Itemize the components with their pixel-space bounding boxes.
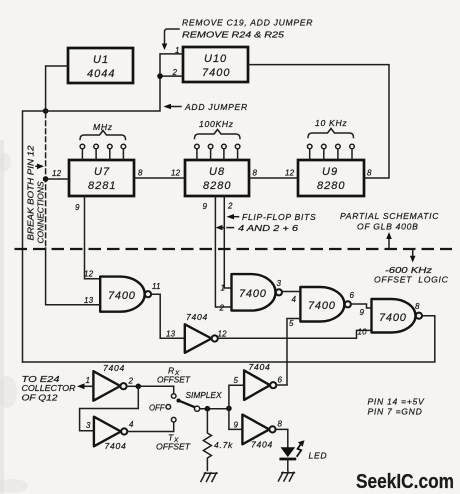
- arrow pointing at break line: [36, 165, 38, 167]
- svg-text:7400: 7400: [239, 288, 267, 300]
- inverter 5->6 7404 (C): [244, 370, 270, 400]
- inverter 9->8 7404 (D): [242, 415, 269, 445]
- node: U7 pin 12 dot on break line: [43, 176, 49, 182]
- svg-text:OFF: OFF: [149, 403, 165, 413]
- wire junction down to inverter D input: [229, 408, 243, 429]
- svg-text:8280: 8280: [317, 180, 345, 192]
- svg-text:8280: 8280: [203, 180, 231, 192]
- LED diode: [281, 447, 296, 457]
- svg-text:7404: 7404: [103, 363, 125, 373]
- svg-text:9: 9: [360, 308, 365, 317]
- svg-text:1: 1: [86, 376, 91, 385]
- wire U10 output to U9 pin 8: [248, 65, 389, 178]
- node: U10 pin1-pin2 tie dot: [157, 73, 163, 79]
- svg-text:4: 4: [129, 420, 134, 429]
- node A junction dot: [43, 108, 49, 114]
- U9 top pin circles and stubs: [307, 144, 312, 149]
- svg-text:FLIP-FLOP BITS: FLIP-FLOP BITS: [242, 212, 316, 222]
- svg-text:2: 2: [128, 377, 134, 386]
- svg-text:4.7k: 4.7k: [214, 440, 233, 450]
- svg-text:COLLECTOR: COLLECTOR: [22, 383, 76, 393]
- svg-text:8281: 8281: [88, 180, 116, 192]
- switch contact OFF: [166, 405, 171, 410]
- svg-text:1: 1: [221, 284, 226, 293]
- svg-text:100KHz: 100KHz: [199, 119, 234, 129]
- nand gate G1 7400 (pins 12,13 -> 11): [100, 277, 145, 312]
- svg-text:OFFSET LOGIC: OFFSET LOGIC: [374, 275, 449, 285]
- svg-text:7400: 7400: [379, 312, 407, 324]
- svg-text:PARTIAL SCHEMATIC: PARTIAL SCHEMATIC: [340, 211, 439, 221]
- svg-text:3: 3: [277, 279, 282, 288]
- svg-text:6: 6: [350, 291, 355, 300]
- svg-text:8: 8: [278, 420, 283, 429]
- svg-text:SeekIC.com: SeekIC.com: [356, 471, 454, 493]
- wire jumper net: node A to U10 pins 1,2: [46, 54, 183, 111]
- svg-text:CONNECTIONS: CONNECTIONS: [36, 181, 46, 243]
- wire G2 output to G4 pin 4: [282, 291, 300, 293]
- svg-text:12: 12: [218, 330, 228, 339]
- wire U8 pin 2 down to gate2 pin 1: [224, 196, 231, 288]
- switch contact Tx: [171, 417, 176, 422]
- svg-text:5: 5: [289, 319, 294, 328]
- nand gate G5 7400 (pins 9,10 -> 8): [372, 299, 416, 333]
- svg-text:U7: U7: [94, 166, 110, 178]
- wire invD output to LED: [276, 429, 288, 447]
- switch contact Rx: [171, 394, 176, 399]
- svg-text:REMOVE C19, ADD JUMPER: REMOVE C19, ADD JUMPER: [182, 18, 313, 28]
- wire G5 output feedback to left rail: [23, 316, 435, 362]
- wire U7 pin 9 down to gate1 pin 12: [85, 196, 101, 279]
- wire U7 pin8 to U8 pin12: [134, 177, 185, 179]
- wire invA input to E24 arrow: [82, 385, 93, 387]
- ground (LED): [278, 472, 294, 481]
- svg-text:13: 13: [84, 296, 94, 305]
- wire left rail (node A down to offset line): [23, 111, 46, 362]
- svg-text:12: 12: [285, 169, 295, 178]
- svg-text:9: 9: [203, 202, 208, 211]
- wire invA output down to invB input: [80, 386, 139, 430]
- G4 output bubble: [345, 301, 351, 307]
- switch arm: [177, 399, 181, 403]
- dashed break line (pin 12 net): [45, 113, 47, 247]
- svg-text:OFFSET: OFFSET: [156, 442, 191, 452]
- wire inverter 12 output to G5 pin 10: [218, 330, 372, 338]
- svg-text:7404: 7404: [249, 362, 271, 372]
- svg-text:LED: LED: [309, 451, 328, 461]
- wire G1 output down to inverter 13: [151, 294, 185, 338]
- switch pole: [195, 406, 200, 411]
- dashed divider line: [15, 248, 453, 250]
- svg-text:13: 13: [166, 330, 176, 339]
- wire invA output to Rx contact: [127, 385, 139, 387]
- svg-text:4: 4: [292, 295, 297, 304]
- IC U9 8280: [298, 160, 364, 196]
- wire invB output to Tx contact: [127, 422, 173, 432]
- arrow up to note: [388, 237, 390, 248]
- wire U8 pin 9 down to gate2 pin 2: [215, 196, 231, 307]
- IC U7 8281: [69, 160, 134, 196]
- svg-text:2: 2: [219, 304, 225, 313]
- brace MHz group: [80, 131, 126, 140]
- arrow down to offset logic note: [412, 250, 414, 258]
- arrow from note to U10 pin junction: [165, 29, 180, 45]
- svg-text:2: 2: [227, 202, 233, 211]
- nand gate G4 7400 (pins 4,5 -> 6): [300, 287, 344, 322]
- svg-text:7400: 7400: [308, 300, 336, 312]
- IC U10 7400: [183, 47, 248, 82]
- svg-text:10: 10: [358, 328, 368, 337]
- svg-text:8: 8: [367, 169, 372, 178]
- svg-text:9: 9: [234, 421, 239, 430]
- svg-text:BREAK BOTH PIN 12: BREAK BOTH PIN 12: [26, 145, 36, 240]
- LED light arrow: [297, 443, 302, 457]
- svg-text:8: 8: [138, 169, 143, 178]
- svg-text:MHz: MHz: [93, 122, 113, 132]
- arrow ADD JUMPER: [168, 106, 181, 108]
- note 4 AND 2+6 with arrow: [219, 227, 224, 229]
- svg-text:U10: U10: [204, 53, 227, 65]
- ground (resistor): [201, 473, 217, 482]
- svg-text:U1: U1: [93, 54, 109, 66]
- svg-text:11: 11: [152, 282, 161, 291]
- svg-text:7400: 7400: [202, 67, 230, 79]
- svg-text:PIN 14 =+5V: PIN 14 =+5V: [368, 397, 425, 407]
- svg-text:6: 6: [278, 376, 283, 385]
- wire U7 pin 12: [46, 178, 69, 180]
- G2 output bubble: [276, 289, 282, 295]
- svg-text:5: 5: [234, 376, 239, 385]
- svg-text:7400: 7400: [108, 290, 136, 302]
- svg-text:12: 12: [171, 169, 181, 178]
- svg-text:3: 3: [86, 421, 91, 430]
- svg-text:SIMPLEX: SIMPLEX: [186, 390, 222, 400]
- inverter 3->4 7404 (B): [94, 417, 121, 447]
- U8 top pin circles and stubs: [195, 144, 200, 149]
- wire pole to inverter junction: [200, 408, 229, 410]
- resistor R 4.7k: [203, 409, 211, 471]
- node resistor junction: [205, 406, 211, 412]
- svg-text:7404: 7404: [186, 312, 208, 322]
- svg-text:10 KHz: 10 KHz: [315, 118, 347, 128]
- wire invC output to G4 pin5 riser: [276, 384, 287, 386]
- svg-text:7404: 7404: [251, 440, 273, 450]
- IC U8 8280: [185, 160, 249, 196]
- wire G4 output to G5 pin 9: [351, 304, 372, 308]
- svg-text:12: 12: [84, 270, 94, 279]
- svg-text:REMOVE R24 & R25: REMOVE R24 & R25: [182, 30, 284, 40]
- svg-text:OFFSET: OFFSET: [157, 375, 191, 385]
- IC U1 4044: [68, 48, 133, 83]
- G5 output bubble: [416, 313, 422, 319]
- svg-text:U8: U8: [209, 166, 225, 178]
- svg-text:4 AND 2 + 6: 4 AND 2 + 6: [238, 223, 298, 233]
- note FLIP-FLOP BITS with arrow: [231, 216, 239, 218]
- svg-text:-600 KHz: -600 KHz: [385, 265, 433, 275]
- svg-text:12: 12: [52, 169, 62, 178]
- svg-text:U9: U9: [322, 166, 338, 178]
- wire LED to ground: [287, 459, 289, 471]
- svg-text:OF Q12: OF Q12: [22, 393, 58, 403]
- svg-text:8: 8: [253, 169, 258, 178]
- svg-text:ADD JUMPER: ADD JUMPER: [184, 102, 248, 112]
- svg-text:OF GLB 400B: OF GLB 400B: [357, 222, 419, 232]
- nand gate G2 7400 (pins 1,2 -> 3): [232, 274, 276, 311]
- wire G4 pin 5 down to inverter C output node: [287, 319, 300, 385]
- wire break line to G1 pin 13: [46, 248, 101, 305]
- svg-text:7404: 7404: [105, 441, 127, 451]
- U7 top pin circles and stubs: [80, 144, 85, 149]
- inverter 13->12 7404: [185, 324, 212, 353]
- wire U10 pin 2 stub: [160, 75, 183, 77]
- svg-text:9: 9: [75, 203, 80, 212]
- brace 100KHz group: [195, 130, 241, 139]
- inverter 1->2 7404 (A): [93, 371, 120, 401]
- G1 output bubble: [145, 291, 151, 297]
- svg-text:8: 8: [415, 302, 420, 311]
- wire U1 left to node A: [46, 66, 68, 111]
- wire U8 pin8 to U9 pin12: [249, 177, 298, 179]
- brace 10 KHz group: [308, 129, 354, 138]
- node inverter junction: [226, 406, 232, 412]
- wire junction up to inverter C input: [229, 385, 244, 408]
- paper smudge left edge: [0, 140, 4, 494]
- svg-text:4044: 4044: [87, 68, 115, 80]
- svg-text:PIN 7 =GND: PIN 7 =GND: [368, 407, 423, 417]
